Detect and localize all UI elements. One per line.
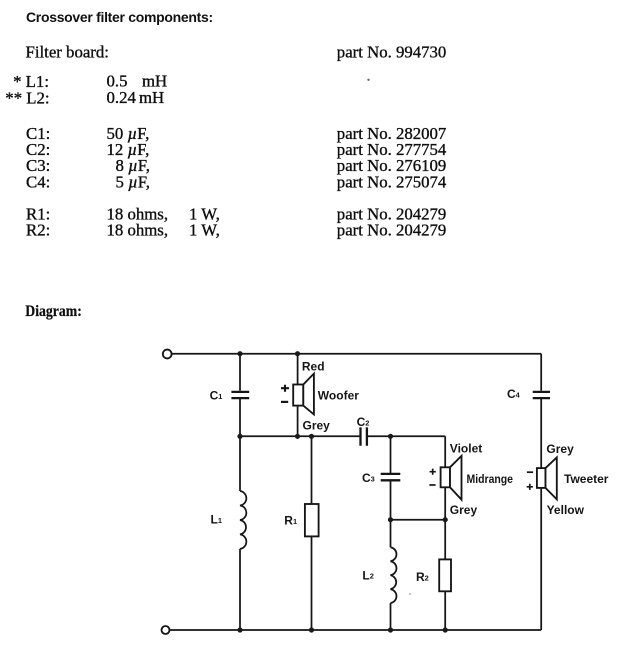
- svg-text:R2: R2: [416, 570, 429, 584]
- svg-text:18 ohms,: 18 ohms,: [107, 221, 169, 240]
- svg-text:C2: C2: [357, 415, 370, 429]
- svg-text:L2: L2: [362, 568, 373, 582]
- svg-text:5 µF,: 5 µF,: [116, 173, 150, 192]
- svg-text:Midrange: Midrange: [467, 472, 514, 486]
- svg-text:C4: C4: [507, 387, 521, 401]
- svg-text:Violet: Violet: [450, 441, 482, 455]
- svg-text:part No. 275074: part No. 275074: [337, 173, 447, 192]
- svg-text:R2:: R2:: [26, 221, 50, 240]
- svg-text:R1: R1: [284, 514, 297, 528]
- svg-text:Grey: Grey: [303, 419, 331, 433]
- svg-text:part No. 204279: part No. 204279: [337, 221, 447, 240]
- svg-text:** L2:: ** L2:: [5, 88, 49, 107]
- svg-text:Red: Red: [302, 360, 325, 374]
- svg-text:Grey: Grey: [546, 442, 574, 456]
- svg-text:mH: mH: [139, 88, 164, 107]
- svg-text:L1: L1: [211, 512, 222, 526]
- svg-text:Filter board:: Filter board:: [26, 43, 109, 62]
- svg-text:C4:: C4:: [26, 173, 50, 192]
- svg-text:C3: C3: [362, 471, 375, 485]
- svg-text:Woofer: Woofer: [318, 389, 359, 403]
- svg-text:Crossover filter components:: Crossover filter components:: [26, 9, 213, 25]
- svg-text:0.24: 0.24: [107, 88, 137, 107]
- svg-text:1 W,: 1 W,: [189, 221, 220, 240]
- svg-text:Yellow: Yellow: [547, 503, 585, 517]
- svg-text:Tweeter: Tweeter: [564, 472, 609, 486]
- svg-text:C1: C1: [210, 389, 223, 403]
- svg-text:Diagram:: Diagram:: [25, 303, 82, 320]
- svg-text:part No. 994730: part No. 994730: [337, 43, 447, 62]
- svg-text:Grey: Grey: [450, 503, 478, 517]
